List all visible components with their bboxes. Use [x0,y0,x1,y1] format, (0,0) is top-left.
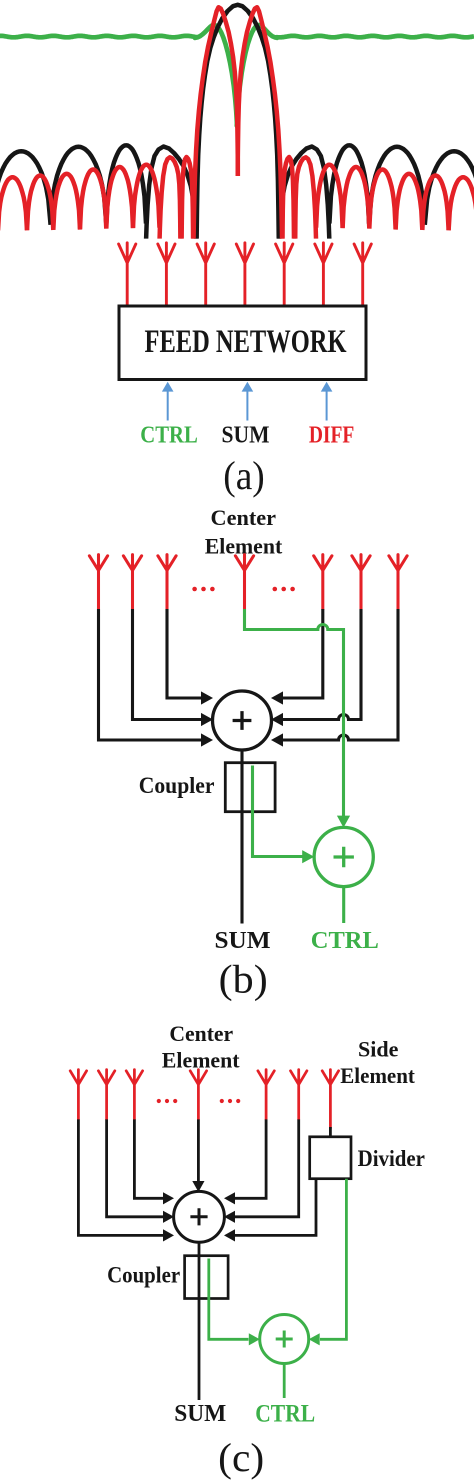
antenna element A3 [197,243,214,307]
antenna element B3 [158,555,176,609]
antenna element B7 [389,555,407,609]
coupler box (c) [185,1256,229,1299]
antenna element B4 [235,555,253,609]
wire center element to summer (top) [197,1119,200,1181]
arrowhead into summer (left) (c) [163,1229,174,1241]
divider box (c) [310,1137,351,1179]
summer (black adder) (b) [213,691,272,750]
CTRL port arrow (blue) [162,382,174,421]
svg-text:SUM: SUM [222,422,270,448]
CTRL output wire (b) [342,887,345,923]
CTRL pattern curve (green) [0,25,474,126]
antenna element A4 [236,243,253,307]
wire element C3 to summer [134,1119,163,1198]
arrowhead green into CTRL adder (left) (b) [302,850,314,863]
DIFF port arrow (blue) [321,382,333,421]
svg-text:Side: Side [358,1037,399,1062]
wire element C2 to summer [107,1119,164,1216]
ellipsis dots left (b) [192,587,214,592]
coupled green wire to CTRL adder (c) [209,1259,249,1340]
side element feed wire into divider [329,1127,332,1137]
antenna element B5 [314,555,332,609]
arrowhead into summer (right) (c) [224,1229,235,1241]
svg-text:Divider: Divider [358,1146,425,1172]
arrowhead into summer (right) (c) [224,1192,235,1204]
svg-text:SUM: SUM [174,1400,226,1427]
svg-text:(a): (a) [223,453,265,498]
arrowhead green into CTRL adder (left) (c) [249,1333,260,1345]
antenna element B6 [352,555,370,609]
svg-text:DIFF: DIFF [309,422,355,448]
arrowhead into summer (right) [271,733,283,746]
svg-text:Center: Center [211,505,277,530]
svg-text:Coupler: Coupler [107,1262,180,1288]
arrowhead green into CTRL adder (right) (c) [309,1333,320,1345]
arrowhead into summer (right) [271,713,283,726]
antenna element A6 [315,243,332,307]
coupled green wire to CTRL adder (b) [253,766,303,857]
wire element B3 to summer [167,609,202,698]
wire divider to summer [235,1179,317,1236]
arrowhead into summer (left) [201,713,213,726]
antenna element A5 [276,243,293,307]
CTRL output wire (c) [283,1364,286,1399]
side antenna element (c) [322,1070,338,1128]
wire element B5 to summer [282,609,323,698]
arrowhead into summer (left) [201,691,213,704]
arrowhead into summer (left) (c) [163,1211,174,1223]
Center Element label (b) [205,505,283,559]
antenna element B2 [123,555,141,609]
wire element C5 to summer [235,1119,267,1198]
antenna element C3 [126,1070,142,1120]
Center Element label (c) [162,1021,240,1073]
coupler box (b) [225,763,275,812]
arrowhead into summer (right) [271,691,283,704]
svg-text:CTRL: CTRL [255,1401,315,1428]
svg-text:CTRL: CTRL [140,422,198,448]
wire element B6 to summer (hops over green) [282,609,361,720]
antenna element A1 [119,243,136,307]
svg-text:SUM: SUM [215,927,271,954]
summer (black adder) (c) [174,1191,225,1242]
svg-text:(c): (c) [218,1435,264,1480]
antenna element C1 [70,1070,86,1120]
svg-text:Element: Element [340,1063,415,1088]
svg-text:Element: Element [162,1048,240,1073]
arrowhead into summer (right) (c) [224,1211,235,1223]
arrowhead into summer (left) (c) [163,1192,174,1204]
svg-text:CTRL: CTRL [311,927,379,954]
CTRL adder (green) (c) [260,1315,309,1364]
arrowhead into summer (top) (c) [192,1181,204,1192]
antenna element C4 [190,1070,206,1120]
svg-text:FEED NETWORK: FEED NETWORK [145,324,347,360]
arrowhead green into CTRL adder (top) (b) [337,816,350,828]
wire element B7 to summer (hops over green) [282,609,398,740]
svg-text:Center: Center [169,1021,233,1046]
antenna element C2 [98,1070,114,1120]
wire element B1 to summer [99,609,203,740]
DIFF pattern curve (red) [0,7,474,242]
antenna element A2 [158,243,175,307]
svg-text:Coupler: Coupler [139,773,215,799]
antenna element B1 [89,555,107,609]
ellipsis dots left (c) [157,1099,178,1103]
feed network box [119,306,366,380]
antenna element C6 [291,1070,307,1120]
ellipsis dots right (c) [220,1099,241,1103]
SUM output wire (c) [198,1242,201,1400]
Side Element label (c) [340,1037,415,1089]
green wire divider to CTRL adder [320,1179,346,1340]
antenna element C5 [258,1070,274,1120]
svg-text:(b): (b) [219,957,268,1002]
antenna element A7 [354,243,371,307]
SUM pattern curve (black) [0,5,474,242]
green tap wire from center element (hops over black) [245,609,344,816]
arrowhead into summer (left) [201,733,213,746]
wire element C1 to summer [78,1119,163,1235]
ellipsis dots right (b) [273,587,295,592]
SUM output wire (b) [240,750,243,924]
SUM port arrow (blue) [242,382,254,421]
CTRL adder (green) (b) [314,827,373,886]
wire element B2 to summer [133,609,203,720]
wire element C6 to summer [235,1119,299,1216]
